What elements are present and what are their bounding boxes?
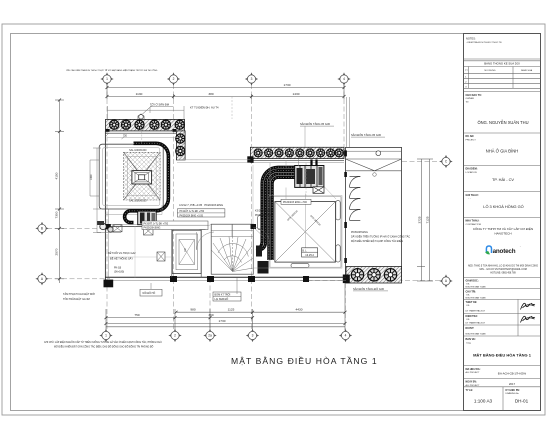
svg-text:ĐA-ACH-CB-17H-05%: ĐA-ACH-CB-17H-05% bbox=[498, 372, 527, 376]
svg-text:DU AN:: DU AN: bbox=[466, 135, 475, 138]
svg-text:980: 980 bbox=[190, 308, 195, 312]
svg-text:KS.: KS. bbox=[467, 284, 471, 286]
svg-text:7125: 7125 bbox=[426, 216, 430, 223]
svg-text:CONTRACTOR: CONTRACTOR bbox=[466, 223, 482, 226]
svg-text:DUYET:: DUYET: bbox=[466, 327, 475, 330]
svg-text:1730: 1730 bbox=[284, 83, 291, 87]
svg-text:TÔN TRẦN ĐẶT GA 3M: TÔN TRẦN ĐẶT GA 3M bbox=[63, 298, 90, 301]
svg-text:NGAY BV:: NGAY BV: bbox=[466, 381, 477, 384]
svg-text:4.6/12.7, P/B +3.05 PK20/20X: 4.6/12.7, P/B +3.05 PK20/20X.ĐNG bbox=[179, 203, 223, 207]
svg-text:1430: 1430 bbox=[293, 92, 300, 96]
svg-text:1: 1 bbox=[105, 334, 107, 338]
svg-text:OWNER: OWNER bbox=[466, 98, 475, 100]
svg-text:LE THANH HAI 2017: LE THANH HAI 2017 bbox=[466, 310, 486, 313]
svg-text:KS.: KS. bbox=[467, 319, 471, 321]
svg-text:PK05/20X ĐNG +3.05: PK05/20X ĐNG +3.05 bbox=[180, 214, 204, 217]
svg-text:MẬT BẰNG ĐIỀU HÒA TẦNG 1: MẬT BẰNG ĐIỀU HÒA TẦNG 1 bbox=[473, 353, 532, 358]
svg-text:360: 360 bbox=[208, 313, 213, 317]
svg-text:GOI THAU:: GOI THAU: bbox=[466, 194, 479, 197]
svg-text:3: 3 bbox=[251, 77, 253, 81]
svg-text:B. L: B. L bbox=[302, 249, 307, 252]
svg-text:KS.: KS. bbox=[467, 295, 471, 297]
svg-text:ALL PROJECT: ALL PROJECT bbox=[466, 371, 481, 374]
svg-text:1000: 1000 bbox=[90, 174, 93, 180]
svg-text:(06+180): (06+180) bbox=[114, 270, 124, 273]
svg-text:~ ..: ~ .. bbox=[468, 198, 471, 200]
svg-text:LE THANH HAI 2017: LE THANH HAI 2017 bbox=[466, 322, 486, 325]
svg-text:KIEM TRA:: KIEM TRA: bbox=[466, 315, 479, 318]
svg-text:ÔNG. NGUYỄN XUÂN THU: ÔNG. NGUYỄN XUÂN THU bbox=[477, 120, 528, 125]
svg-text:PK05/20H.ĐNG: PK05/20H.ĐNG bbox=[351, 231, 368, 234]
svg-text:3725: 3725 bbox=[417, 216, 421, 223]
svg-text:Tel:: Tel: bbox=[466, 102, 470, 104]
svg-text:ADD: TANG 5 TOA NHA HH1, LO 30: ADD: TANG 5 TOA NHA HH1, LO 30 KHU DO TH… bbox=[468, 265, 538, 268]
svg-text:2570: 2570 bbox=[55, 248, 59, 255]
svg-text:NGUYEN VAN TOAN: NGUYEN VAN TOAN bbox=[466, 297, 486, 300]
svg-text:DRAWING No: DRAWING No bbox=[506, 392, 520, 395]
svg-text:750: 750 bbox=[134, 313, 139, 317]
svg-text:LẠI XEM ĐỒ: LẠI XEM ĐỒ bbox=[215, 298, 229, 301]
svg-text:PK05/20H.ĐNG: PK05/20H.ĐNG bbox=[144, 226, 161, 229]
svg-text:ĐNG THOÁT 05: ĐNG THOÁT 05 bbox=[265, 223, 268, 240]
svg-text:NHA THAU:: NHA THAU: bbox=[466, 220, 480, 223]
svg-text:ALL PROJECT: ALL PROJECT bbox=[466, 384, 481, 387]
svg-text:ĐỂ HỆ THỒNG SẤY: ĐỂ HỆ THỒNG SẤY bbox=[110, 258, 133, 261]
svg-text:HANOTECH: HANOTECH bbox=[494, 232, 511, 236]
svg-text:KY HIEU BV:: KY HIEU BV: bbox=[506, 389, 521, 392]
svg-text:´: ´ bbox=[520, 245, 521, 249]
svg-text:VAN... GO.CO.VN HANOTECH@GMAIL: VAN... GO.CO.VN HANOTECH@GMAIL.COM bbox=[479, 268, 527, 271]
svg-text:MẶT ĐIỀU KHIỂN ĐẶT CẠNH CÔNG T: MẶT ĐIỀU KHIỂN ĐẶT CẠNH CÔNG TẮC ĐIỆN bbox=[351, 240, 403, 243]
svg-text:SAL 1000X1000: SAL 1000X1000 bbox=[129, 149, 147, 152]
svg-text:7300: 7300 bbox=[55, 211, 59, 218]
svg-text:NHÀ Ở GIA ĐÌNH: NHÀ Ở GIA ĐÌNH bbox=[486, 149, 518, 154]
svg-text:2: 2 bbox=[174, 334, 176, 338]
svg-text:PK ĐẤT J+TL ĐK +700: PK ĐẤT J+TL ĐK +700 bbox=[144, 222, 169, 225]
svg-text:anotech: anotech bbox=[493, 248, 516, 255]
svg-text:PK05/20Y.ĐANG: PK05/20Y.ĐANG bbox=[255, 214, 273, 217]
svg-text:CHU TRI:: CHU TRI: bbox=[466, 291, 477, 294]
svg-text:750: 750 bbox=[123, 135, 128, 138]
svg-text:MA HIEU DA:: MA HIEU DA: bbox=[466, 368, 481, 371]
svg-text:- KIEM TRA KICH THUOC THUC TE: - KIEM TRA KICH THUOC THUC TE bbox=[466, 41, 502, 44]
svg-text:HOTLINE: 0983.456.789: HOTLINE: 0983.456.789 bbox=[490, 273, 516, 275]
svg-text:PK20/20X ĐNG +700: PK20/20X ĐNG +700 bbox=[283, 201, 307, 204]
svg-text:13.25.2: 13.25.2 bbox=[305, 253, 314, 257]
svg-text:KS.: KS. bbox=[467, 305, 471, 307]
svg-text:BANG THONG KE SUA DOI: BANG THONG KE SUA DOI bbox=[484, 61, 520, 65]
svg-text:YÊU CẦU KIỂM TRA KÍCH THƯớC TH: YÊU CẦU KIỂM TRA KÍCH THƯớC THỰC TẾ VỚI … bbox=[66, 69, 158, 72]
svg-text:TP. HẢI - CV: TP. HẢI - CV bbox=[492, 177, 514, 182]
svg-text:NGUYEN VAN TOAN: NGUYEN VAN TOAN bbox=[466, 333, 486, 336]
svg-text:2: 2 bbox=[173, 77, 175, 81]
svg-text:PK-1B: PK-1B bbox=[114, 267, 122, 270]
svg-text:1130: 1130 bbox=[136, 92, 143, 96]
svg-text:4150: 4150 bbox=[55, 172, 59, 179]
svg-text:CÔNG TY TNHH TM VÀ XÂY LẮP CƠ: CÔNG TY TNHH TM VÀ XÂY LẮP CƠ ĐIỆN bbox=[473, 226, 533, 231]
svg-text:NGUYEN VAN TOAN: NGUYEN VAN TOAN bbox=[466, 286, 486, 289]
svg-text:GHI CHÚ: LẮP ĐIỆN NGUỒN CẤP TỪ: GHI CHÚ: LẮP ĐIỆN NGUỒN CẤP TỪ TRÊN XUỐN… bbox=[44, 341, 162, 344]
svg-text:DH-01: DH-01 bbox=[515, 399, 529, 404]
svg-text:1730: 1730 bbox=[219, 319, 226, 323]
svg-text:MẬT BẰNG ĐIỀU HÒA TẦNG 1: MẬT BẰNG ĐIỀU HÒA TẦNG 1 bbox=[231, 356, 378, 366]
svg-text:SAL 1000X1000: SAL 1000X1000 bbox=[129, 200, 147, 203]
svg-text:NGAY SUA: NGAY SUA bbox=[521, 69, 533, 72]
svg-text:CHU DAU TU:: CHU DAU TU: bbox=[466, 94, 483, 97]
svg-text:1: 1 bbox=[106, 77, 108, 81]
svg-text:380: 380 bbox=[208, 92, 213, 96]
svg-text:NỒI ĐỒ HỒ: NỒI ĐỒ HỒ bbox=[143, 292, 156, 295]
svg-text:DIA DIEM:: DIA DIEM: bbox=[466, 168, 478, 171]
svg-text:B: B bbox=[41, 227, 43, 231]
svg-text:NOI DUNG: NOI DUNG bbox=[485, 70, 496, 72]
svg-text:PK ĐẤT J+TL ĐK +700: PK ĐẤT J+TL ĐK +700 bbox=[180, 210, 205, 213]
svg-text:3: 3 bbox=[252, 334, 254, 338]
svg-text:4: 4 bbox=[343, 77, 345, 81]
svg-text:NOTES:: NOTES: bbox=[466, 37, 476, 41]
svg-text:PROJECT: PROJECT bbox=[466, 140, 477, 142]
svg-text:1:100 A3: 1:100 A3 bbox=[474, 399, 493, 404]
svg-text:DÂY ĐIỆN TRÊN TƯỜNG IP HẢI Ở C: DÂY ĐIỆN TRÊN TƯỜNG IP HẢI Ở CẠNH CÔNG T… bbox=[351, 236, 410, 239]
svg-text:2a: 2a bbox=[208, 334, 212, 338]
svg-text:MỞ ĐIỀU KHIỂN ĐẶT GẦN CÔNG TẮC: MỞ ĐIỀU KHIỂN ĐẶT GẦN CÔNG TẮC ĐIỆN, DA3… bbox=[54, 346, 154, 349]
svg-text:4: 4 bbox=[345, 334, 347, 338]
svg-text:KS/2L Đ/B +3.05: KS/2L Đ/B +3.05 bbox=[255, 210, 273, 213]
svg-text:BAN VE:: BAN VE: bbox=[466, 338, 476, 341]
svg-text:TY LE:: TY LE: bbox=[466, 389, 474, 392]
svg-text:2017: 2017 bbox=[509, 382, 516, 386]
svg-text:THIET KE:: THIET KE: bbox=[466, 301, 478, 304]
svg-text:GIAM DOC:: GIAM DOC: bbox=[466, 280, 479, 283]
svg-text:1125: 1125 bbox=[228, 308, 235, 312]
svg-text:BƠM KT TRỜI: BƠM KT TRỜI bbox=[215, 294, 231, 297]
svg-text:LOCATION: LOCATION bbox=[466, 171, 477, 174]
svg-text:4430: 4430 bbox=[296, 308, 303, 312]
svg-text:LÔ 3 KHOÁ HỒNG GÓ: LÔ 3 KHOÁ HỒNG GÓ bbox=[483, 204, 523, 209]
svg-text:KẾT NỒI VG TRỤC GA2: KẾT NỒI VG TRỤC GA2 bbox=[108, 252, 136, 255]
svg-text:TẤM THẠCH CAO ĐẶT MỚI: TẤM THẠCH CAO ĐẶT MỚI bbox=[63, 293, 95, 296]
